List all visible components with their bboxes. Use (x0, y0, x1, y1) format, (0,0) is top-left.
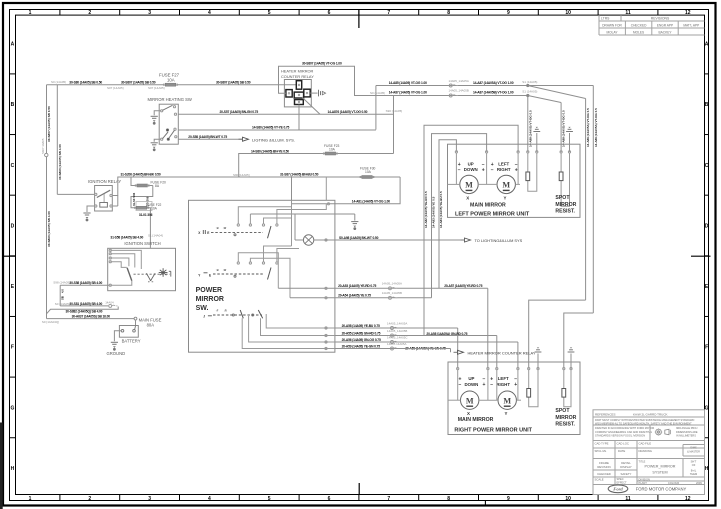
svg-text:ENGR APP: ENGR APP (657, 23, 673, 27)
svg-text:B+/L: B+/L (691, 468, 697, 472)
svg-text:S0 (14A05): S0 (14A05) (370, 91, 385, 95)
svg-text:SB: SB (61, 296, 65, 300)
wire: lamp to lighting sys (314, 239, 464, 241)
svg-text:S98 (14A05): S98 (14A05) (53, 280, 70, 284)
wire: left mirror feed B (432, 134, 487, 298)
label: 30-S807 VT-OG (302, 62, 342, 66)
svg-text:30-S81 (14A05) SB 4.00: 30-S81 (14A05) SB 4.00 (69, 302, 102, 306)
svg-text:+: + (514, 382, 517, 388)
svg-text:RIGHT: RIGHT (496, 382, 510, 387)
svg-text:Y: Y (505, 411, 508, 416)
node: lighting sys arrow (239, 137, 249, 141)
wire: heating sw mid output (178, 129, 376, 131)
label: 30-S882 (66, 310, 103, 314)
wire: fuse F23 run (239, 96, 394, 178)
svg-text:GROUND: GROUND (107, 351, 126, 356)
svg-text:−: − (490, 382, 493, 388)
svg-text:1: 1 (29, 10, 32, 16)
svg-text:G: G (10, 405, 14, 411)
node: main fuse terminal (134, 317, 137, 320)
svg-text:D: D (11, 223, 15, 229)
svg-text:14A04: 14A04 (105, 300, 114, 304)
label: row 20-A58 (342, 322, 408, 329)
svg-text:RIGHT: RIGHT (497, 167, 511, 172)
node: connector 20-A54 (389, 296, 398, 299)
svg-text:5: 5 (268, 10, 271, 16)
wire: row2 to right mirror (335, 336, 497, 369)
svg-text:MIRROR: MIRROR (555, 415, 576, 421)
svg-text:S0 (14A05): S0 (14A05) (51, 80, 66, 84)
battery (119, 326, 138, 338)
svg-text:KA/W 2L GARRD TRUCK: KA/W 2L GARRD TRUCK (633, 412, 668, 416)
svg-text:CAD LOC: CAD LOC (617, 442, 629, 446)
svg-text:M: M (466, 396, 474, 405)
svg-text:SPCL ML: SPCL ML (595, 449, 607, 453)
label: rotated labels on spot feed verticals (528, 108, 598, 147)
svg-text:TITLE: TITLE (639, 460, 646, 463)
svg-text:DIMS: DIMS (690, 447, 697, 450)
svg-text:E: E (207, 231, 209, 235)
svg-text:G: G (705, 405, 709, 411)
svg-text:2: 2 (88, 10, 91, 16)
svg-text:X: X (467, 411, 470, 416)
svg-text:11: 11 (625, 10, 631, 16)
svg-text:14-A87 (14A05A) VT-OG 1.00: 14-A87 (14A05A) VT-OG 1.00 (473, 81, 514, 85)
label: 30-S58 output (53, 280, 102, 285)
wire: PMS row drops (242, 314, 335, 350)
svg-text:Ford: Ford (613, 487, 623, 492)
svg-text:C: C (11, 163, 15, 169)
node: connector row2 (391, 334, 400, 337)
svg-text:12: 12 (685, 10, 691, 16)
svg-text:POWER_MIRROR: POWER_MIRROR (645, 465, 676, 469)
wire: left mirror feed A (439, 140, 456, 289)
svg-text:MAIN MIRROR: MAIN MIRROR (470, 203, 506, 209)
svg-text:DIMENSIONS ARE: DIMENSIONS ARE (676, 431, 698, 434)
svg-text:30-S80 (14A05) SB 0.50: 30-S80 (14A05) SB 0.50 (69, 81, 102, 85)
svg-text:RIGHT POWER MIRROR UNIT: RIGHT POWER MIRROR UNIT (454, 428, 532, 434)
svg-text:31-S87 (14A05) BN-BU 0.50: 31-S87 (14A05) BN-BU 0.50 (280, 173, 319, 177)
label: 14-S80 mid (252, 126, 290, 130)
svg-text:6: 6 (328, 496, 331, 502)
wire: left mirror feed C (424, 125, 518, 335)
svg-text:30-S807 (14A05) SB 0.50: 30-S807 (14A05) SB 0.50 (216, 81, 251, 85)
svg-text:J: J (203, 315, 205, 319)
caption: BATTERY (122, 338, 141, 343)
svg-text:30-S807 (14A05) VT-OG 1.00: 30-S807 (14A05) VT-OG 1.00 (302, 62, 342, 66)
svg-text:MIRROR: MIRROR (555, 202, 576, 208)
svg-text:+: + (482, 382, 485, 388)
svg-text:9: 9 (507, 10, 510, 16)
svg-text:SPOT: SPOT (555, 408, 570, 414)
svg-text:MIRROR: MIRROR (196, 296, 224, 303)
switch group fold (203, 309, 262, 319)
svg-text:↓W: ↓W (223, 268, 227, 272)
label: wire1 labels (389, 79, 538, 85)
wire: heater relay top output (326, 66, 528, 95)
switch: MIRROR HEATING SW (148, 97, 192, 144)
svg-text:LTRS: LTRS (601, 16, 610, 20)
wire: ignition relay coil to ground (87, 206, 95, 212)
ground: left spot resistor 2 (566, 127, 573, 152)
svg-text:PART MUST COMPLY WITH RESTRICT: PART MUST COMPLY WITH RESTRICTED SUBSTAN… (595, 418, 694, 422)
svg-text:DRAWN FOR: DRAWN FOR (602, 23, 622, 27)
svg-text:F: F (11, 345, 14, 351)
svg-text:↑B: ↑B (216, 226, 219, 230)
node: connector on wire2 (449, 94, 458, 97)
svg-text:DRAWING: DRAWING (639, 449, 652, 453)
svg-text:FORD MOTOR COMPANY: FORD MOTOR COMPANY (636, 487, 687, 492)
svg-text:14-A83 (14A05) YE 0.5: 14-A83 (14A05) YE 0.5 (432, 196, 436, 228)
label: wire 30-S80 (51, 80, 251, 90)
svg-text:30-A637 (14A05S) SB 16.00: 30-A637 (14A05S) SB 16.00 (72, 315, 111, 319)
wire: diagonal wire1 to right mirror drop (528, 86, 586, 301)
svg-text:1: 1 (29, 496, 32, 502)
svg-text:20-S57 (14A05) BN-GN 0.75: 20-S57 (14A05) BN-GN 0.75 (220, 110, 259, 114)
svg-text:S1 (14A05): S1 (14A05) (522, 80, 537, 84)
label: row 20-A56 (342, 336, 408, 343)
svg-text:S90 [14A05]: S90 [14A05] (233, 173, 250, 177)
svg-text:DOWN: DOWN (464, 382, 478, 387)
svg-text:D: D (705, 223, 709, 229)
svg-text:30-S882 (14A05Q) SB 4.00: 30-S882 (14A05Q) SB 4.00 (66, 310, 103, 314)
svg-text:14-A85 (14A05) VT-OG 1.00: 14-A85 (14A05) VT-OG 1.00 (389, 81, 427, 85)
wire: relay tap diagonal to mirror-switch wire (302, 97, 320, 114)
svg-text:S07 [14A05]: S07 [14A05] (148, 86, 165, 90)
svg-text:30-S860 (14A05) SB 4.00: 30-S860 (14A05) SB 4.00 (58, 144, 62, 180)
svg-text:C: C (705, 163, 709, 169)
svg-text:14-A87 (14A05) VT-OG 1.00: 14-A87 (14A05) VT-OG 1.00 (389, 90, 427, 94)
label: S0-A98 (339, 236, 379, 240)
svg-text:14-A89 (14A05A) VT-OG 0.5: 14-A89 (14A05A) VT-OG 0.5 (586, 108, 590, 147)
wire: heater relay label loop feed (279, 66, 327, 93)
svg-text:10: 10 (565, 10, 571, 16)
label: rotated 31-S860 along V57.3 (58, 144, 62, 180)
svg-text:20-A54 (14A05) YE 0.75: 20-A54 (14A05) YE 0.75 (338, 294, 371, 298)
svg-text:IGNITION SWITCH: IGNITION SWITCH (124, 241, 160, 246)
svg-text:+: + (515, 167, 518, 173)
svg-text:H: H (11, 466, 15, 472)
title block (593, 410, 705, 495)
svg-text:LEFT: LEFT (498, 376, 509, 381)
label: S1 14A04 and 30-S58 (110, 233, 163, 239)
node: wire2 split (527, 94, 529, 96)
label: 20-S57 (220, 110, 259, 114)
svg-text:IN MILLIMETERS: IN MILLIMETERS (676, 434, 696, 437)
svg-text:20-S58 (14A05) BN-WT 0.75: 20-S58 (14A05) BN-WT 0.75 (188, 135, 227, 139)
svg-text:80A: 80A (147, 323, 155, 328)
svg-text:3: 3 (148, 10, 151, 16)
wire: branch to fuse F20 (131, 177, 153, 186)
svg-text:BATTERY: BATTERY (122, 338, 141, 343)
svg-text:DOWN: DOWN (464, 167, 478, 172)
svg-text:14-A82 (14A05) YE-RD 0.5: 14-A82 (14A05) YE-RD 0.5 (424, 191, 428, 228)
svg-text:THEM: THEM (690, 472, 697, 476)
svg-text:EFFECT: EFFECT (617, 481, 628, 485)
svg-text:14A05_14A05A: 14A05_14A05A (382, 281, 402, 285)
wire: battery to ground (114, 331, 121, 342)
wire: diagonal wire2 to left spot resistor leg2 (528, 96, 561, 152)
svg-text:14A05_14A05A: 14A05_14A05A (449, 79, 469, 83)
svg-text:8: 8 (447, 10, 450, 16)
svg-text:COUNTER RELAY: COUNTER RELAY (281, 74, 314, 79)
svg-text:3: 3 (148, 496, 151, 502)
svg-text:H: H (705, 466, 709, 472)
svg-text:14-S80 (14A05) BN-YE 0.50: 14-S80 (14A05) BN-YE 0.50 (251, 149, 289, 153)
ground: heating sw 2 (151, 143, 158, 151)
svg-text:COLOUR: COLOUR (668, 481, 679, 485)
svg-text:X: X (466, 196, 469, 201)
ground: ignition relay (83, 213, 90, 221)
svg-text:4: 4 (208, 496, 211, 502)
svg-text:14-A81 (14A05) VT-OG 1.00: 14-A81 (14A05) VT-OG 1.00 (352, 200, 390, 204)
svg-text:7: 7 (387, 10, 390, 16)
ground: right spot resistor 1 (535, 347, 542, 368)
svg-text:10A: 10A (365, 170, 372, 174)
label: 14-A81 (352, 200, 390, 204)
ground: PMS area ground (351, 222, 358, 230)
wire: relay row to PMS supply (292, 177, 401, 205)
svg-text:11: 11 (625, 496, 631, 502)
svg-text:TO LIGHTING&ILLUM SYS: TO LIGHTING&ILLUM SYS (475, 238, 523, 243)
ground: heater relay (319, 90, 326, 97)
svg-text:RESIST.: RESIST. (555, 422, 575, 428)
label: rotated fuse wires (132, 192, 150, 208)
svg-text:IGNITION RELAY: IGNITION RELAY (88, 179, 121, 184)
label: MAIN FUSE 80A (139, 318, 162, 328)
wire: F22 down to ignition switch (147, 208, 150, 248)
svg-text:OF: OF (692, 463, 696, 467)
wire: ignition switch output (60, 285, 109, 306)
fuse F22 (134, 202, 161, 211)
wire: main fuse to battery (135, 320, 137, 326)
svg-text:SPEC: SPEC (617, 477, 624, 481)
label: 20-A53 (338, 281, 483, 288)
svg-text:↑F: ↑F (216, 309, 219, 313)
switch group Y (left/right) (198, 246, 299, 298)
label: rotated SB 4.0 (61, 289, 65, 300)
svg-text:HEATER MIRROR COUNTER RELAY: HEATER MIRROR COUNTER RELAY (468, 350, 536, 355)
wire: lamp left lead (295, 214, 303, 240)
svg-text:A: A (11, 42, 15, 48)
wire: 30-S882 run (47, 307, 119, 314)
svg-text:RESIST.: RESIST. (555, 209, 575, 215)
caption: TO LIGHTING (475, 238, 523, 243)
switch group X (up/down) (198, 204, 326, 239)
svg-text:B: B (705, 102, 709, 108)
svg-text:POWER: POWER (196, 287, 222, 294)
svg-text:A: A (705, 42, 709, 48)
svg-text:3RD ANGLE PROJ: 3RD ANGLE PROJ (676, 427, 698, 430)
svg-text:BACKEY: BACKEY (659, 30, 673, 34)
svg-text:2: 2 (88, 496, 91, 502)
wire: battery feed top bus (y=84.7) (47, 84, 298, 86)
svg-text:SW.: SW. (196, 305, 209, 312)
ground: right spot resistor 2 (568, 347, 575, 368)
node: to-lighting arrow (461, 238, 471, 242)
svg-text:DRAFTED IN ACCORDANCE WITH FOR: DRAFTED IN ACCORDANCE WITH FORD MOTOR (595, 426, 654, 430)
svg-text:31-S0 S06: 31-S0 S06 (132, 192, 136, 206)
svg-text:30-S860 (14A05) SB 4.00: 30-S860 (14A05) SB 4.00 (47, 211, 51, 247)
svg-text:↓R: ↓R (224, 309, 227, 313)
svg-text:S0 (14A05): S0 (14A05) (55, 302, 70, 306)
svg-text:S07 [14A05]: S07 [14A05] (107, 86, 124, 90)
ground: heating sw 1 (151, 116, 158, 124)
svg-text:7: 7 (387, 496, 390, 502)
svg-text:30-S58 (14A05) SB 4.00: 30-S58 (14A05) SB 4.00 (69, 281, 102, 285)
svg-text:14-A88 (14A05) VT-OG 0.5: 14-A88 (14A05) VT-OG 0.5 (528, 110, 532, 147)
svg-text:M: M (502, 181, 510, 190)
svg-text:SYSTEM: SYSTEM (652, 471, 667, 475)
wire: output 20-A54 row (290, 297, 432, 299)
svg-text:F: F (705, 345, 708, 351)
svg-text:14-A84 (14A05) YE-BU 0.5: 14-A84 (14A05) YE-BU 0.5 (439, 191, 443, 228)
svg-text:9: 9 (507, 496, 510, 502)
lamp: switch illumination (303, 235, 313, 245)
wire: heating sw lighting output (178, 138, 242, 140)
svg-text:14A05_14A05B: 14A05_14A05B (449, 89, 469, 93)
ground: left spot resistor 1 (533, 127, 540, 152)
svg-text:10A: 10A (167, 77, 175, 82)
relay K1 IGNITION RELAY (88, 179, 121, 211)
svg-text:CHECKED: CHECKED (597, 472, 611, 476)
svg-text:14-S80 (14A05) VT-YE 0.75: 14-S80 (14A05) VT-YE 0.75 (252, 126, 290, 130)
wire: output 20-A53 row (278, 287, 488, 368)
svg-text:S607 14A05: S607 14A05 (41, 138, 45, 154)
svg-text:UP: UP (468, 376, 474, 381)
svg-text:LIGTING &ILLUM. SYS.: LIGTING &ILLUM. SYS. (252, 137, 295, 142)
svg-text:2009: 2009 (696, 481, 702, 485)
label: 14-S80 (F23) (251, 149, 289, 153)
label: rotated 30-S860 along V46.5 (47, 211, 51, 247)
svg-text:UP: UP (468, 161, 474, 166)
wire: heating sw top output (178, 113, 393, 115)
ground: battery ground (111, 342, 118, 350)
svg-text:CAD FILE: CAD FILE (639, 442, 652, 446)
node: connector row4 (391, 347, 400, 350)
svg-text:MIRROR HEATING SW: MIRROR HEATING SW (148, 97, 192, 102)
wire: heater relay ground lead (310, 92, 317, 94)
svg-text:LEFT: LEFT (498, 161, 509, 166)
node: connector on wire1 (449, 84, 458, 87)
svg-text:S0 [14A04Q]: S0 [14A04Q] (42, 320, 59, 324)
label: row 20-A59 (342, 342, 446, 350)
svg-text:SAFETY: SAFETY (621, 472, 632, 476)
svg-text:CAD TYPE: CAD TYPE (595, 442, 609, 446)
svg-text:Y: Y (504, 196, 507, 201)
svg-text:MOLES: MOLES (633, 30, 644, 34)
svg-text:S1 (14A05): S1 (14A05) (522, 89, 537, 93)
wire: row1 to right mirror (335, 328, 458, 369)
svg-text:30-S807 (14A05) SB 0.50: 30-S807 (14A05) SB 0.50 (47, 106, 51, 142)
unit: LEFT POWER MIRROR UNIT (448, 144, 581, 217)
svg-text:REVISIONS: REVISIONS (651, 16, 670, 20)
svg-text:14-A89 (14A05A) VT-OG 0.5: 14-A89 (14A05A) VT-OG 0.5 (594, 108, 598, 147)
svg-text:30-S807 (14A05) SB 0.50: 30-S807 (14A05) SB 0.50 (121, 81, 156, 85)
svg-text:COMPANY ENGINEERING CAD AND DR: COMPANY ENGINEERING CAD AND DRAFTING (595, 430, 652, 434)
svg-text:14A05_14A05A: 14A05_14A05A (387, 322, 407, 326)
svg-text:SH'T: SH'T (691, 459, 697, 463)
svg-text:STANDARDS VERSION FOOGL /VERSI: STANDARDS VERSION FOOGL /VERSION (595, 433, 645, 437)
svg-text:−: − (491, 167, 494, 173)
fuse F27 (159, 73, 180, 87)
wire: vertical feeder V57.3 to ignition relay (57, 85, 94, 195)
svg-text:REFERENCES: REFERENCES (595, 412, 616, 416)
label: rotated labels on left feeds (424, 191, 443, 228)
svg-text:DISPLAY: DISPLAY (620, 465, 632, 469)
wire: right-unit spot feed 2 (564, 313, 594, 369)
wire: row3 to right mirror (335, 342, 518, 369)
svg-text:6: 6 (328, 10, 331, 16)
svg-text:31-01 306: 31-01 306 (139, 213, 153, 217)
wire: wire1 drop at far right (592, 86, 594, 314)
svg-text:S1 [14A04]: S1 [14A04] (148, 233, 163, 237)
wire: PMS X-switch common to ground (250, 214, 354, 221)
wire: battery main feed (47, 318, 135, 320)
relay K2 HEATER MIRROR COUNTER RELAY (281, 69, 314, 107)
label: S 14A04Q (42, 320, 59, 324)
label: rotated 30-S807 along V46.5 (47, 106, 51, 142)
svg-text:14-A87 (14A05B) VT-OG 1.00: 14-A87 (14A05B) VT-OG 1.00 (473, 91, 514, 95)
wire: heating sw ground 2 (154, 139, 160, 142)
label: wire2 labels (370, 89, 537, 96)
node: splice S607 on V46.5 (41, 138, 48, 157)
svg-text:31-S206 (14A05) BN-BK 0.50: 31-S206 (14A05) BN-BK 0.50 (121, 173, 161, 177)
svg-text:B: B (11, 102, 15, 108)
svg-text:SPOT: SPOT (555, 195, 570, 201)
wire: row4 to heater relay arrow (335, 349, 451, 353)
svg-text:WSS-M99P9999-A1 TO SAFEGUARD H: WSS-M99P9999-A1 TO SAFEGUARD HEALTH, SAF… (595, 421, 692, 425)
svg-text:4.0: 4.0 (61, 289, 65, 293)
wire: left vertical feeder V46.5 (46, 85, 48, 319)
svg-text:10A: 10A (151, 207, 158, 211)
switch: IGNITION SWITCH (108, 241, 176, 291)
node: heater relay arrow (454, 350, 464, 354)
node: connector 20-A53 (389, 287, 398, 290)
svg-text:LEFT POWER MIRROR UNIT: LEFT POWER MIRROR UNIT (455, 211, 530, 217)
label: 31-01 306 (139, 213, 153, 217)
svg-text:REVISION: REVISION (597, 465, 610, 469)
svg-text:14A05 14A05A: 14A05 14A05A (387, 342, 407, 346)
svg-text:↓W: ↓W (223, 226, 227, 230)
svg-text:SCALE: SCALE (595, 478, 604, 482)
wire: wire2 drop to left spot resistor (527, 96, 529, 152)
svg-text:↑B: ↑B (216, 268, 219, 272)
svg-text:PLANT: PLANT (639, 481, 648, 485)
svg-text:20-A53 (14A05) YE-RD 0.75: 20-A53 (14A05) YE-RD 0.75 (338, 284, 376, 288)
svg-text:S0-A98 (14A05) BK-WT 0.50: S0-A98 (14A05) BK-WT 0.50 (339, 236, 379, 240)
wire: right-unit spot feed 1 (529, 300, 586, 369)
svg-text:M: M (465, 181, 473, 190)
wire: PMS internal bus V291 (291, 177, 293, 246)
node: connector row3 (391, 341, 400, 344)
wire: relay bottom pin to mid wire (298, 105, 300, 131)
label: 31-S206 wire (121, 173, 319, 177)
node: wire1 split (527, 84, 529, 86)
svg-text:12: 12 (685, 496, 691, 502)
label: row 20-A55 (342, 329, 468, 336)
caption: GROUND (107, 351, 126, 356)
fuse F23 (323, 144, 340, 155)
caption: LIGTING ILLUM SYS (252, 137, 295, 142)
svg-text:10: 10 (565, 496, 571, 502)
svg-text:M: M (503, 396, 511, 405)
svg-text:E: E (209, 274, 211, 278)
wire: feed wire1 y=85.5 (376, 85, 593, 87)
label: 30-A637 (72, 315, 111, 319)
svg-text:20-A57 (14A05) YE-RD 0.75: 20-A57 (14A05) YE-RD 0.75 (444, 284, 482, 288)
svg-text:31-S58 (14A05) SB 4.00: 31-S58 (14A05) SB 4.00 (110, 235, 143, 239)
